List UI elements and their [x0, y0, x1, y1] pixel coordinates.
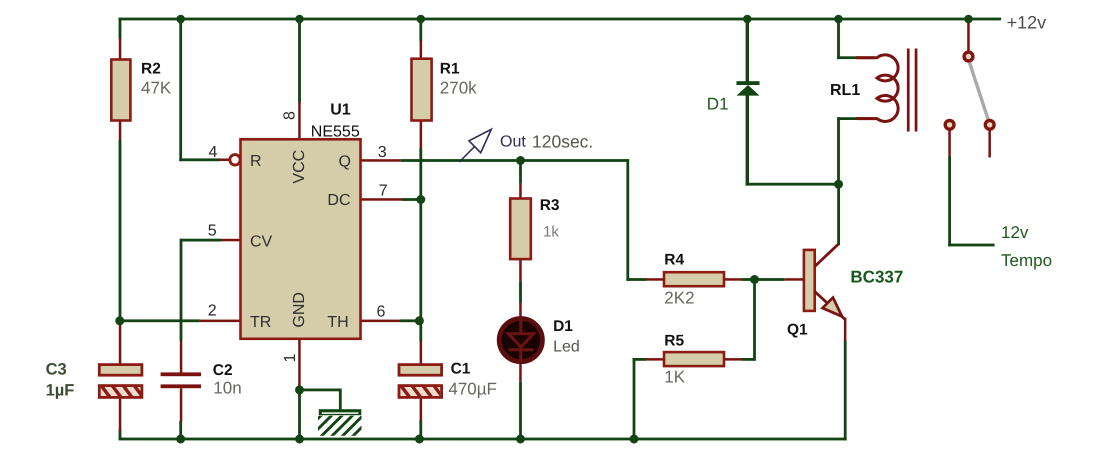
svg-text:Out: Out: [500, 134, 526, 151]
svg-text:12v: 12v: [1001, 223, 1029, 242]
svg-text:Q1: Q1: [787, 322, 808, 339]
svg-text:47K: 47K: [141, 79, 172, 98]
svg-text:NE555: NE555: [311, 124, 360, 141]
svg-text:BC337: BC337: [850, 267, 903, 286]
svg-text:R: R: [250, 153, 262, 170]
svg-text:8: 8: [282, 111, 299, 120]
svg-text:U1: U1: [330, 101, 351, 118]
svg-text:120sec.: 120sec.: [532, 132, 593, 152]
svg-text:4: 4: [209, 144, 218, 161]
svg-text:VCC: VCC: [291, 150, 308, 184]
svg-text:Tempo: Tempo: [1001, 251, 1052, 270]
svg-text:+12v: +12v: [1007, 13, 1047, 33]
svg-text:5: 5: [208, 223, 217, 240]
svg-text:3: 3: [378, 144, 387, 161]
svg-text:10n: 10n: [213, 379, 241, 398]
svg-text:C1: C1: [451, 360, 471, 377]
svg-text:R4: R4: [664, 252, 684, 269]
svg-text:R5: R5: [664, 333, 684, 350]
svg-text:6: 6: [377, 304, 386, 321]
svg-text:1µF: 1µF: [46, 382, 75, 400]
svg-text:CV: CV: [250, 234, 273, 251]
svg-text:1: 1: [282, 354, 299, 363]
svg-text:470µF: 470µF: [448, 380, 497, 399]
svg-text:1k: 1k: [543, 224, 559, 241]
svg-text:D1: D1: [553, 318, 573, 335]
svg-text:C3: C3: [46, 361, 67, 379]
svg-text:270k: 270k: [440, 79, 477, 98]
svg-text:C2: C2: [213, 362, 233, 379]
svg-text:Q: Q: [339, 154, 351, 171]
svg-text:TR: TR: [250, 314, 271, 331]
svg-text:R2: R2: [141, 61, 161, 78]
svg-text:7: 7: [379, 183, 388, 200]
svg-text:2K2: 2K2: [664, 289, 694, 308]
svg-text:R1: R1: [440, 60, 460, 77]
svg-text:1K: 1K: [664, 368, 685, 387]
svg-text:TH: TH: [327, 314, 348, 331]
svg-text:DC: DC: [327, 192, 350, 209]
svg-text:D1: D1: [707, 95, 729, 114]
svg-text:R3: R3: [540, 197, 560, 214]
svg-text:GND: GND: [291, 292, 308, 328]
svg-text:2: 2: [208, 303, 217, 320]
svg-text:Led: Led: [553, 339, 580, 356]
svg-text:RL1: RL1: [830, 82, 860, 99]
